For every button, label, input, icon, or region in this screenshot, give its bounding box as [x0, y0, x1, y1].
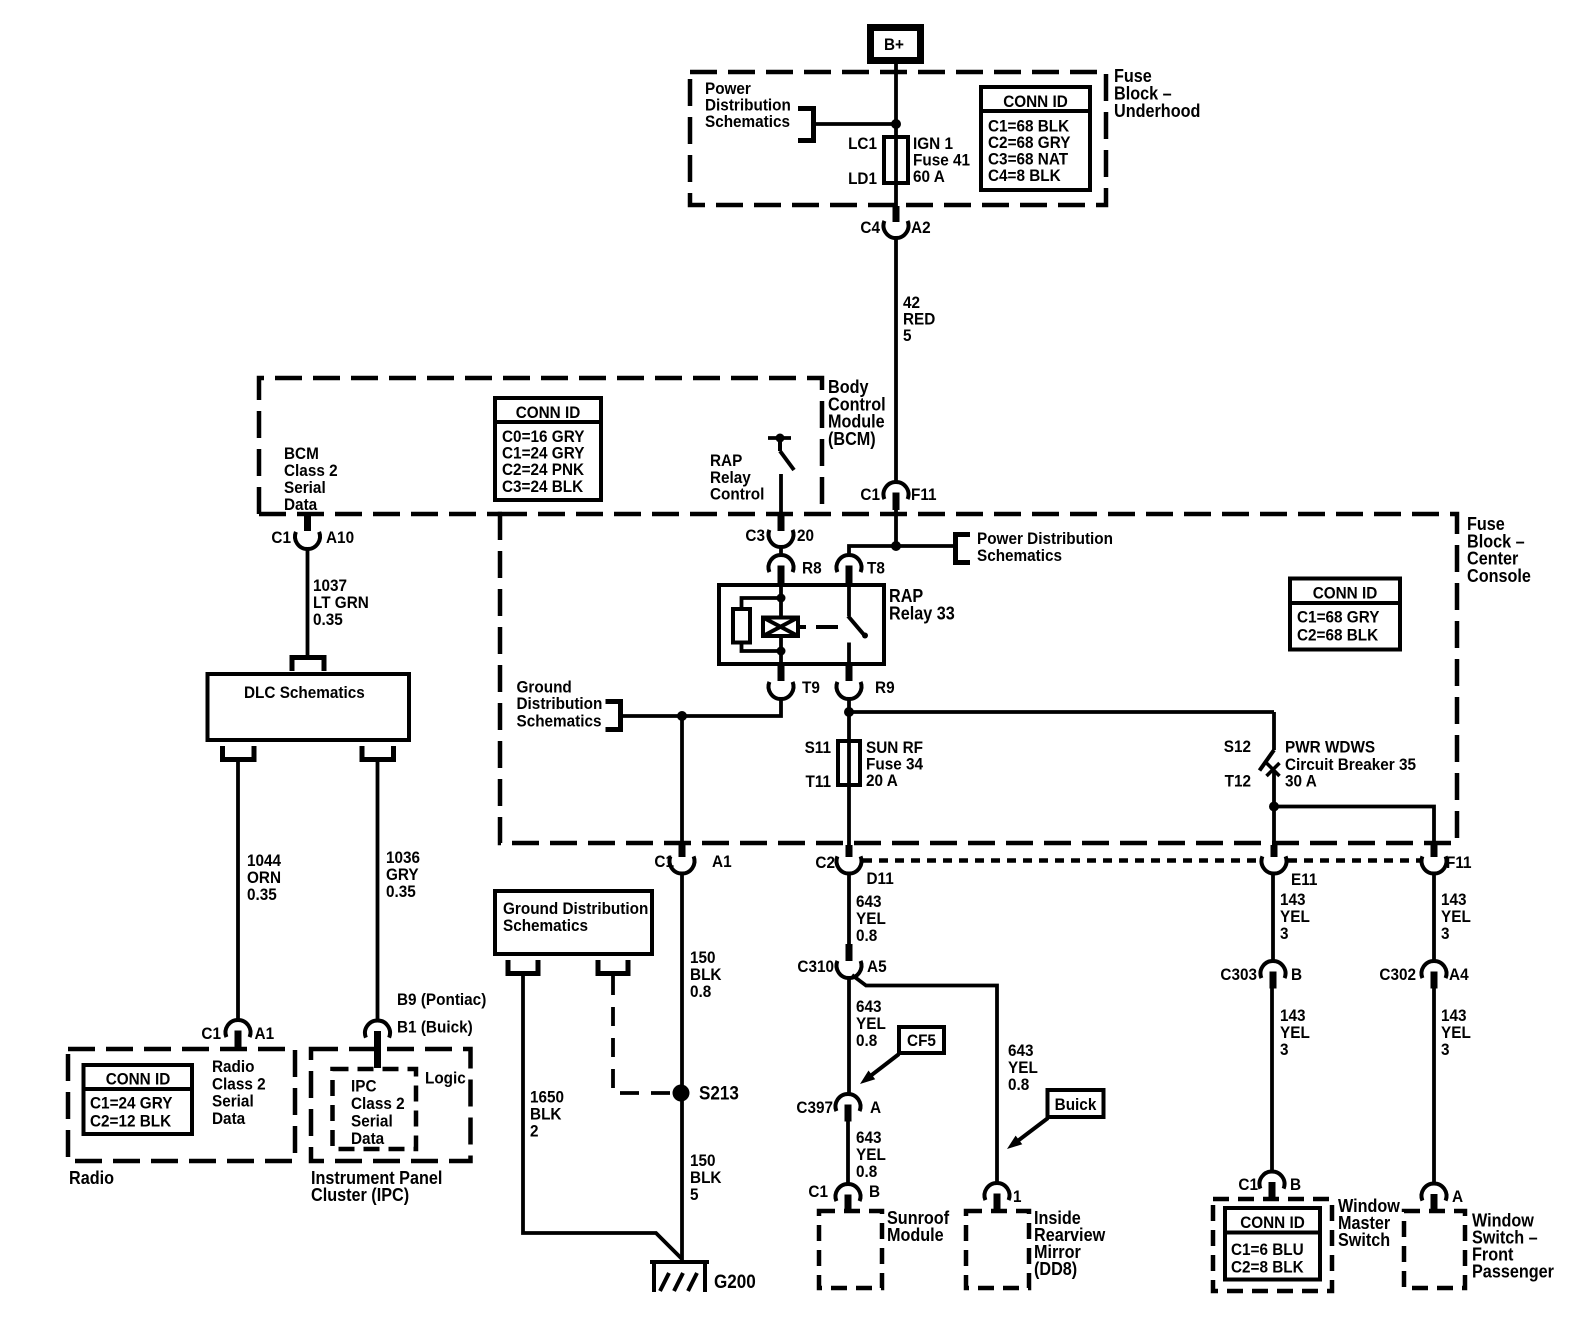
connector C1/F11 (BCM power input) — [860, 482, 936, 510]
connector 1 (inside rearview mirror) — [985, 1183, 1022, 1209]
label 143 YEL 3 (C303) — [1280, 1006, 1310, 1059]
label RAP Relay 33 — [889, 586, 955, 623]
svg-text:C302: C302 — [1379, 965, 1416, 984]
wire 42 RED 5 — [894, 238, 898, 482]
label 1044 ORN 0.35 — [247, 851, 281, 904]
connector F11 (passenger window feed) — [1422, 845, 1472, 874]
wire 643 YEL 0.8 (C397 to sunroof) — [846, 1122, 850, 1185]
IPC logic inner dashed box — [333, 1069, 417, 1149]
relay coil (crossed box) — [763, 618, 798, 637]
svg-text:S11: S11 — [805, 738, 831, 757]
svg-text:20: 20 — [797, 526, 814, 545]
connector C397/A — [796, 1094, 881, 1122]
svg-text:Relay 33: Relay 33 — [889, 603, 955, 623]
wire 1036 GRY 0.35 — [376, 762, 380, 1021]
splice S213 — [673, 1084, 739, 1105]
svg-text:Distribution: Distribution — [517, 694, 603, 713]
svg-text:A2: A2 — [911, 218, 931, 237]
bracket below ground distribution box (right) — [598, 960, 628, 974]
svg-text:0.8: 0.8 — [1008, 1075, 1029, 1094]
connector C1/A1 (radio) — [201, 1020, 274, 1049]
svg-text:Buick: Buick — [1055, 1095, 1097, 1114]
svg-text:LC1: LC1 — [848, 134, 877, 153]
off-page bracket: Power Distribution Schematics (center console) — [956, 535, 971, 563]
wire RAP relay control to C3 — [779, 474, 783, 514]
CONN ID table (radio) — [84, 1065, 193, 1134]
off-page bracket: Power Distribution Schematics (underhood) — [798, 109, 814, 141]
svg-text:S213: S213 — [699, 1084, 739, 1105]
svg-text:C1: C1 — [1238, 1175, 1258, 1194]
svg-text:0.8: 0.8 — [690, 982, 711, 1001]
svg-text:B: B — [869, 1182, 880, 1201]
svg-text:T9: T9 — [802, 678, 820, 697]
svg-text:C2: C2 — [815, 853, 835, 872]
svg-text:20 A: 20 A — [866, 771, 898, 790]
wire fuse to connector C4 — [894, 183, 898, 207]
svg-text:3: 3 — [1441, 924, 1450, 943]
svg-text:Control: Control — [710, 485, 764, 504]
wire junction to T8 — [849, 546, 896, 555]
svg-text:C1=68 GRY: C1=68 GRY — [1297, 608, 1380, 627]
svg-text:C1: C1 — [808, 1182, 828, 1201]
svg-text:Module: Module — [887, 1225, 944, 1245]
svg-text:CONN ID: CONN ID — [1313, 584, 1378, 603]
callout CF5 — [860, 1027, 944, 1084]
label 143 YEL 3 (C302) — [1441, 1006, 1471, 1059]
svg-text:E11: E11 — [1291, 870, 1317, 889]
svg-text:CONN ID: CONN ID — [106, 1070, 171, 1089]
sunroof module dashed box — [819, 1211, 882, 1288]
svg-text:C2=68 BLK: C2=68 BLK — [1297, 626, 1379, 645]
svg-text:A: A — [1452, 1187, 1463, 1206]
svg-text:CF5: CF5 — [907, 1031, 936, 1050]
wire R9 down to junction — [847, 699, 851, 712]
svg-text:IPC: IPC — [351, 1077, 377, 1096]
inside rearview mirror dashed box — [966, 1211, 1029, 1288]
node: junction R9 branch — [844, 707, 854, 717]
battery terminal B+ — [871, 28, 921, 61]
label Fuse Block - Center Console — [1467, 514, 1531, 586]
connector A (window switch front passenger) — [1422, 1183, 1464, 1211]
circuit breaker 35 PWR WDWS — [1260, 712, 1280, 807]
wire junction to power distribution bracket — [896, 544, 954, 548]
connector R8 (relay coil terminal) — [769, 555, 822, 585]
svg-text:0.8: 0.8 — [856, 1031, 877, 1050]
fuse block center console dashed box — [500, 514, 1457, 843]
svg-text:B9 (Pontiac): B9 (Pontiac) — [397, 990, 486, 1009]
BCM module dashed box — [259, 378, 822, 514]
window switch front passenger dashed box — [1404, 1211, 1465, 1288]
bracket below DLC box (right) — [362, 746, 394, 760]
relay U33 RAP Relay box — [719, 585, 884, 664]
label 143 YEL 3 (E11) — [1280, 890, 1310, 943]
label Ground Distribution Schematics (bracket) — [517, 678, 603, 731]
wire R9 junction down to fuse S11 — [847, 712, 851, 741]
value label IGN 1 Fuse 41 60 A — [913, 134, 970, 186]
wire C310 down to C397 — [847, 978, 851, 1094]
svg-text:A10: A10 — [326, 528, 354, 547]
svg-text:1: 1 — [1013, 1187, 1022, 1206]
node: junction S-ground at 682,716 — [677, 711, 687, 721]
wire 1037 LT GRN 0.35 — [306, 549, 310, 655]
bulkhead dotted pass-through line — [863, 858, 1420, 863]
svg-text:B1 (Buick): B1 (Buick) — [397, 1018, 473, 1037]
window master switch dashed box — [1213, 1199, 1332, 1291]
svg-text:B: B — [1291, 965, 1302, 984]
svg-text:A: A — [870, 1098, 881, 1117]
svg-text:Logic: Logic — [425, 1069, 466, 1088]
svg-text:0.35: 0.35 — [386, 882, 416, 901]
label 1036 GRY 0.35 — [386, 848, 420, 901]
node: junction at power distribution tap — [891, 119, 901, 129]
relay switch blade — [848, 585, 868, 664]
svg-text:T8: T8 — [867, 559, 885, 578]
off-page bracket: Ground Distribution Schematics — [606, 702, 621, 730]
wire breaker junction down to E11 — [1272, 807, 1276, 846]
svg-text:Cluster (IPC): Cluster (IPC) — [311, 1185, 409, 1205]
svg-text:C310: C310 — [797, 957, 834, 976]
label 643 YEL 0.8 (mirror branch) — [1008, 1041, 1038, 1094]
svg-text:Radio: Radio — [212, 1057, 255, 1076]
label 150 BLK 5 — [690, 1151, 722, 1204]
connector B1 (IPC) — [365, 1018, 473, 1069]
svg-text:Serial: Serial — [212, 1092, 254, 1111]
wire C3 to R8 — [779, 547, 783, 555]
wire B+ to fuse LC1 — [894, 64, 898, 137]
svg-text:B+: B+ — [884, 35, 904, 54]
svg-text:PWR WDWS: PWR WDWS — [1285, 738, 1375, 757]
wire 1650 BLK 2 to ground — [523, 976, 682, 1259]
wire coil to T9 — [777, 636, 786, 664]
CONN ID table (center console) — [1290, 579, 1400, 650]
svg-text:Data: Data — [351, 1129, 385, 1148]
svg-text:F11: F11 — [1446, 853, 1472, 872]
label 643 YEL 0.8 (first) — [856, 892, 886, 945]
svg-text:Schematics: Schematics — [977, 546, 1062, 565]
connector C302/A4 — [1379, 961, 1469, 989]
label Instrument Panel Cluster (IPC) — [311, 1168, 442, 1205]
ground G200 — [650, 1260, 756, 1293]
connector C3/20 (RAP relay control into fuse block) — [745, 514, 814, 547]
connector C303/B — [1220, 961, 1302, 989]
svg-text:C4: C4 — [860, 218, 880, 237]
bracket below ground distribution box (left) — [508, 960, 538, 974]
svg-text:DLC Schematics: DLC Schematics — [244, 683, 365, 702]
label 643 YEL 0.8 (third) — [856, 1128, 886, 1181]
wire 643 YEL 0.8 (C2 to C310) — [847, 874, 851, 945]
wire 143 YEL 3 (C302 to window switch) — [1432, 989, 1436, 1184]
svg-text:A1: A1 — [255, 1024, 275, 1043]
svg-text:5: 5 — [690, 1185, 699, 1204]
svg-text:C4=8 BLK: C4=8 BLK — [988, 166, 1061, 185]
svg-text:Data: Data — [212, 1109, 246, 1128]
svg-text:60 A: 60 A — [913, 167, 945, 186]
connector C1/A10 (BCM serial data) — [271, 514, 354, 549]
radio dashed box — [68, 1049, 295, 1161]
wire 143 YEL 3 (F11 to C302) — [1432, 874, 1436, 962]
wire F11 to junction — [894, 510, 898, 546]
connector E11 — [1262, 845, 1318, 889]
label 150 BLK 0.8 — [690, 948, 722, 1001]
svg-text:A5: A5 — [867, 957, 887, 976]
label Inside Rearview Mirror (DD8) — [1034, 1208, 1106, 1279]
svg-text:Class 2: Class 2 — [212, 1074, 266, 1093]
svg-text:Passenger: Passenger — [1472, 1262, 1554, 1282]
svg-text:Data: Data — [284, 495, 318, 514]
dashed wire to splice S213 — [613, 976, 670, 1093]
label Body Control Module (BCM) — [828, 377, 886, 449]
svg-text:Radio: Radio — [69, 1168, 114, 1188]
label RAP Relay Control — [710, 451, 764, 504]
value label SUN RF Fuse 34 20 A — [866, 738, 923, 790]
relay mechanical link (dashed) — [798, 625, 838, 629]
label 42 RED 5 — [903, 293, 935, 345]
svg-text:C1: C1 — [860, 485, 880, 504]
svg-text:0.35: 0.35 — [247, 885, 277, 904]
connector C1/B (window master switch) — [1238, 1171, 1301, 1199]
label 643 YEL 0.8 (second) — [856, 997, 886, 1050]
wire branch A5 to inside rearview mirror — [852, 975, 997, 1184]
svg-text:30 A: 30 A — [1285, 772, 1317, 791]
svg-text:C1: C1 — [271, 528, 291, 547]
svg-text:CONN ID: CONN ID — [1003, 92, 1068, 111]
bracket above DLC box — [292, 658, 324, 672]
label Window Master Switch — [1338, 1196, 1401, 1250]
fuse IGN1 Fuse 41 60A — [884, 137, 908, 183]
svg-text:Schematics: Schematics — [705, 112, 790, 131]
label Window Switch - Front Passenger — [1472, 1211, 1554, 1282]
resistor (relay coil suppression) — [733, 609, 750, 643]
bracket below DLC box (left) — [223, 746, 255, 760]
label IPC Class 2 Serial Data — [351, 1077, 405, 1149]
svg-text:CONN ID: CONN ID — [1240, 1213, 1305, 1232]
svg-text:S12: S12 — [1224, 737, 1251, 756]
connector C1/A1 (ground distribution output) — [654, 845, 731, 874]
node: junction breaker output — [1269, 802, 1279, 812]
label 143 YEL 3 (F11) — [1441, 890, 1471, 943]
svg-text:3: 3 — [1280, 924, 1289, 943]
svg-text:Serial: Serial — [351, 1112, 393, 1131]
callout Buick — [1007, 1090, 1104, 1149]
svg-text:C3=24 BLK: C3=24 BLK — [502, 477, 584, 496]
svg-text:A4: A4 — [1449, 965, 1469, 984]
node: junction F11 wire / T8 / power distribution — [891, 541, 901, 551]
svg-text:T12: T12 — [1225, 772, 1251, 791]
label Fuse Block - Underhood — [1114, 66, 1200, 121]
svg-text:C1: C1 — [201, 1024, 221, 1043]
wire T9 to ground distribution bracket — [622, 699, 781, 716]
svg-text:R9: R9 — [875, 678, 895, 697]
connector C310/A5 — [797, 944, 886, 978]
svg-text:G200: G200 — [714, 1272, 756, 1293]
svg-text:Class 2: Class 2 — [351, 1094, 405, 1113]
svg-text:C1=24 GRY: C1=24 GRY — [90, 1094, 173, 1113]
svg-text:LD1: LD1 — [848, 169, 877, 188]
svg-text:C3: C3 — [745, 526, 765, 545]
svg-text:(BCM): (BCM) — [828, 429, 876, 449]
wire 143 YEL 3 (E11 to C303) — [1271, 874, 1275, 962]
svg-text:2: 2 — [530, 1122, 539, 1141]
connector C1/B (sunroof module) — [808, 1182, 880, 1211]
svg-text:Underhood: Underhood — [1114, 101, 1200, 121]
svg-text:(DD8): (DD8) — [1034, 1259, 1077, 1279]
svg-text:Schematics: Schematics — [517, 712, 602, 731]
svg-text:C397: C397 — [796, 1098, 833, 1117]
CONN ID table (BCM) — [495, 398, 601, 500]
connector T9 (relay output to ground side) — [769, 664, 820, 699]
svg-text:C1: C1 — [654, 852, 674, 871]
svg-text:F11: F11 — [911, 485, 937, 504]
svg-text:CONN ID: CONN ID — [516, 403, 581, 422]
connector C4/A2 — [860, 206, 930, 238]
svg-text:Console: Console — [1467, 566, 1531, 586]
svg-text:C2=12 BLK: C2=12 BLK — [90, 1112, 172, 1131]
connector R9 (relay output) — [837, 664, 895, 699]
CONN ID table (underhood) — [981, 87, 1090, 190]
svg-text:C303: C303 — [1220, 965, 1257, 984]
wire 150 BLK 0.8 — [680, 874, 684, 1265]
svg-text:C2=8 BLK: C2=8 BLK — [1231, 1258, 1304, 1277]
value label PWR WDWS Circuit Breaker 35 30 A — [1285, 738, 1416, 791]
wire resistor bottom to coil bottom junction — [742, 643, 782, 652]
wire breaker junction to F11 branch — [1274, 807, 1434, 846]
ground distribution schematics box (solid) — [495, 891, 652, 954]
svg-text:A1: A1 — [712, 852, 732, 871]
svg-text:3: 3 — [1441, 1040, 1450, 1059]
wire junction down to C1/A1 — [680, 716, 684, 844]
svg-text:5: 5 — [903, 326, 912, 345]
svg-text:0.8: 0.8 — [856, 1162, 877, 1181]
label 1037 LT GRN 0.35 — [313, 576, 369, 629]
label Radio Class 2 Serial Data — [212, 1057, 266, 1128]
wire fuse S11 to C2 — [847, 785, 851, 845]
CONN ID table (window master switch) — [1225, 1208, 1320, 1280]
fuse SUN RF Fuse 34 20A — [838, 741, 860, 785]
fuse block underhood dashed box — [690, 72, 1106, 205]
svg-text:0.8: 0.8 — [856, 926, 877, 945]
svg-text:Schematics: Schematics — [503, 916, 588, 935]
svg-text:0.35: 0.35 — [313, 610, 343, 629]
svg-text:3: 3 — [1280, 1040, 1289, 1059]
connector C2 (sunroof feed out of fuse block) — [815, 845, 893, 888]
label Sunroof Module — [887, 1208, 950, 1245]
svg-text:T11: T11 — [806, 772, 832, 791]
relay coil branch wires — [742, 585, 786, 618]
svg-text:D11: D11 — [867, 869, 894, 888]
svg-text:R8: R8 — [802, 559, 822, 578]
wire 1044 ORN 0.35 — [236, 762, 240, 1020]
RAP relay control driver switch inside BCM — [768, 434, 794, 471]
svg-text:C1=6 BLU: C1=6 BLU — [1231, 1240, 1304, 1259]
instrument panel cluster dashed box — [311, 1049, 471, 1161]
label Power Distribution Schematics (center console) — [977, 529, 1113, 565]
label 1650 BLK 2 — [530, 1088, 564, 1141]
wire R9 junction to circuit breaker S12 — [849, 710, 1274, 714]
svg-text:Switch: Switch — [1338, 1230, 1390, 1250]
connector T8 (relay switch feed) — [837, 555, 885, 585]
wire 143 YEL 3 (C303 to window master switch) — [1270, 989, 1274, 1172]
svg-text:B: B — [1290, 1175, 1301, 1194]
wire tap to power distribution bracket — [815, 122, 896, 126]
label Power Distribution Schematics (underhood) — [705, 79, 791, 131]
DLC Schematics box — [208, 674, 410, 740]
label BCM Class 2 Serial Data — [284, 444, 338, 514]
